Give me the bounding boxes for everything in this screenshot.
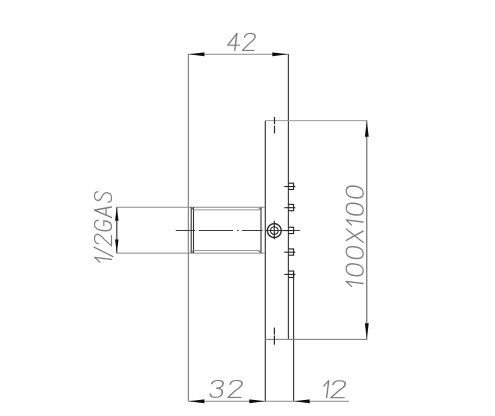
node serration tick 3 [284, 230, 295, 232]
node 100X100 dim arrowheads [365, 121, 369, 339]
wire plate front face [264, 121, 266, 402]
wire chamfer diag top-right [259, 208, 261, 210]
node 32 and 12 dim arrowheads [188, 399, 309, 403]
wire chamfer diag bottom-right [259, 251, 261, 253]
value label 32 [210, 380, 243, 397]
wire plate top edge [265, 120, 367, 122]
wire 100X100 dimension line [366, 121, 368, 340]
wire extension line left (42/32 datum) [187, 54, 189, 401]
value label 100X100 [346, 185, 363, 288]
wire chamfer edge line [260, 207, 262, 253]
wire extension line right (42 dim, through plate) [287, 54, 289, 339]
wire 32/12 dimension line [188, 400, 349, 402]
wire plate bottom edge [265, 338, 368, 340]
value label 12 [322, 381, 346, 398]
node serration tick 4 [284, 251, 295, 253]
wire chamfer diag top-left [191, 208, 193, 210]
wire tab edge line (below serrations to 12 dim) [293, 271, 295, 401]
value label 42 [227, 33, 256, 50]
wire boss bottom edge [117, 252, 266, 254]
wire thread crest top [194, 209, 259, 211]
node 42 dim arrowheads [188, 52, 288, 56]
wire 42 dimension line [188, 53, 288, 55]
node center mark bottom [273, 328, 275, 335]
wire thread runout groove line 2 [193, 207, 195, 253]
value label 1/2GAS [94, 191, 113, 263]
node hole outer circle [267, 224, 281, 238]
wire boss left edge / 1-2GAS dim line [116, 207, 118, 253]
wire chamfer diag bottom-left [191, 251, 193, 253]
node 1/2GAS dim arrowheads [115, 207, 119, 253]
wire horizontal centerline (dash-dot axis) [176, 230, 196, 232]
node serration tick 2 [284, 207, 295, 209]
node serration tick 5 [284, 273, 295, 275]
wire boss top edge [117, 206, 266, 208]
wire thread crest bottom [194, 250, 259, 252]
node hole vertical centerline [273, 221, 275, 230]
wire thread runout groove line 1 [190, 207, 192, 253]
node hole inner circle [270, 227, 278, 235]
node center mark top [274, 117, 276, 124]
node serration tick 1 [284, 186, 295, 188]
